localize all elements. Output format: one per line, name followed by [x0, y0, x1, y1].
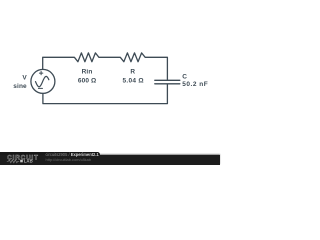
svg-text:600 Ω: 600 Ω [78, 78, 96, 85]
svg-text:50.2 nF: 50.2 nF [182, 81, 208, 88]
svg-text:sine: sine [13, 83, 27, 90]
svg-text:V: V [22, 74, 27, 81]
svg-text:LAB: LAB [24, 158, 33, 163]
svg-text:5.04 Ω: 5.04 Ω [122, 78, 143, 85]
svg-text:R: R [130, 69, 135, 76]
svg-text:C: C [182, 74, 187, 81]
svg-text:Rin: Rin [82, 69, 93, 76]
